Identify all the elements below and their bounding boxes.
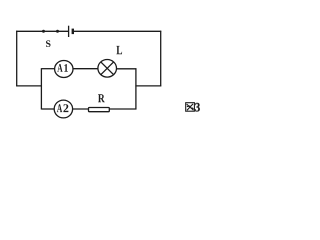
label L <box>116 46 122 54</box>
label A1 <box>57 64 68 72</box>
wire A1 to lamp <box>73 68 98 70</box>
wire lamp to inner-right corner <box>116 68 136 70</box>
ammeter A2 <box>54 100 72 118</box>
switch S contact dot right <box>56 30 59 33</box>
wire A2 to resistor <box>72 108 88 110</box>
wire resistor to inner-right <box>109 108 136 110</box>
wire inner-right vertical <box>135 68 137 109</box>
wire top-right segment (battery to top-right corner) <box>73 30 161 32</box>
wire inner-left vertical <box>40 68 42 109</box>
label R <box>98 94 105 102</box>
battery long plate (positive) <box>68 26 70 37</box>
caption figure glyph (tu) box <box>186 103 195 112</box>
wire A2 branch left <box>41 108 54 110</box>
ammeter A1 <box>55 61 73 78</box>
lamp L <box>98 60 117 78</box>
wire right outer vertical <box>160 31 162 87</box>
wire left feed horizontal <box>16 85 42 87</box>
wire top-left segment (through switch) <box>16 30 68 32</box>
wire A1 branch left <box>41 68 54 70</box>
resistor R body <box>89 108 110 112</box>
wire right feed horizontal <box>135 85 161 87</box>
switch S contact dot left <box>42 30 45 33</box>
wire left outer vertical <box>16 31 18 87</box>
label A2 <box>57 104 69 112</box>
caption figure number 3 <box>195 103 200 112</box>
lamp cross stroke 1 <box>101 62 114 75</box>
label S <box>46 40 51 47</box>
lamp cross stroke 2 <box>101 62 114 75</box>
battery short thick plate (negative) <box>72 29 74 34</box>
